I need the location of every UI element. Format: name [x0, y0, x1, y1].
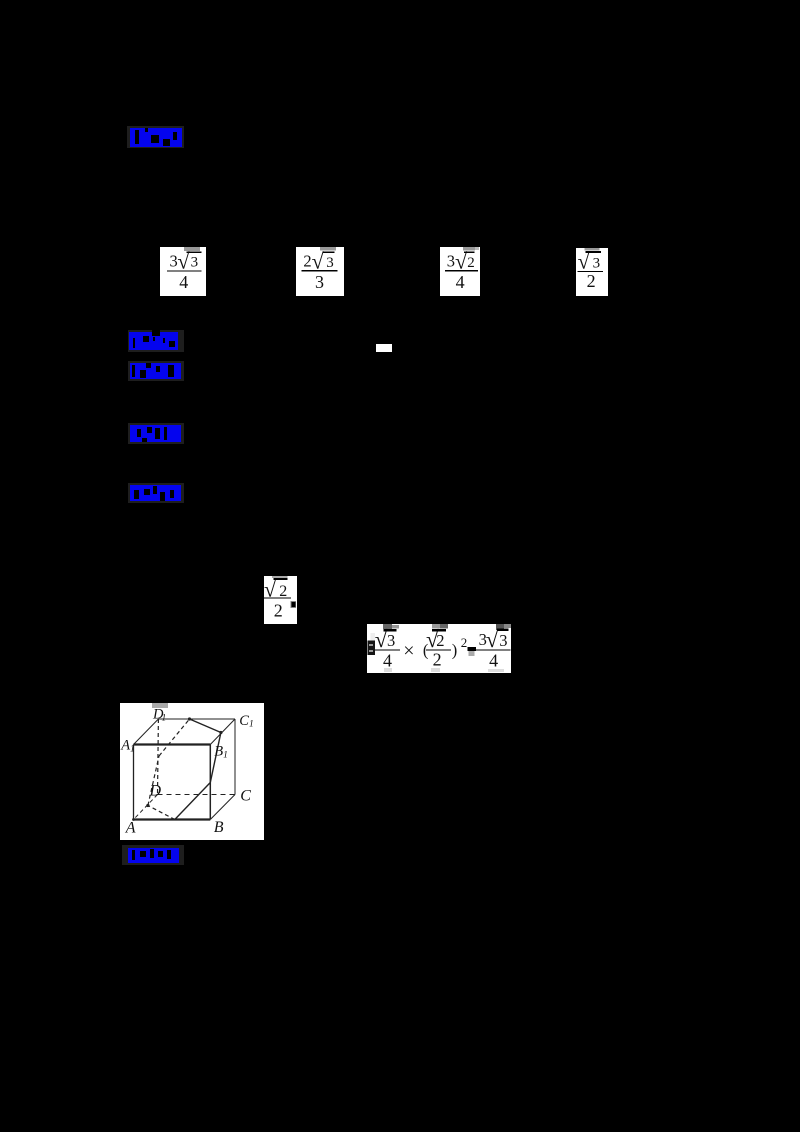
label L4 — [128, 423, 184, 444]
svg-text:): ) — [452, 640, 458, 659]
cube figure — [120, 703, 264, 845]
top gray tabs — [383, 624, 392, 629]
section FH solid — [210, 733, 221, 783]
cube edge DA dashed — [134, 795, 158, 820]
svg-text:4: 4 — [179, 272, 188, 292]
white dash box — [376, 344, 392, 352]
label L1 blue 【题文】 — [127, 126, 184, 148]
cube edge A1A — [133, 745, 135, 820]
formula box B4: √3/2 — [576, 248, 608, 301]
svg-text:2: 2 — [467, 255, 475, 271]
equation box EQ: √3/4 × (√2/2)² = 3√3/4 — [367, 624, 511, 678]
formula box B3: 3√2/4 — [440, 247, 480, 301]
left dark block — [368, 641, 376, 656]
vertex dot P — [146, 804, 149, 807]
svg-text:3: 3 — [499, 631, 507, 650]
svg-text:2: 2 — [461, 635, 468, 650]
section GP dashed — [148, 806, 175, 820]
svg-text:3: 3 — [593, 256, 601, 272]
svg-text:3: 3 — [447, 251, 455, 270]
label L5 — [128, 483, 184, 503]
cube edge D1D dashed — [157, 719, 160, 795]
formula box B2: 2√3/3 — [296, 247, 344, 301]
label L6 — [122, 845, 184, 865]
equals (dark block) — [468, 647, 476, 651]
svg-text:2: 2 — [433, 649, 442, 669]
label L2 — [128, 330, 184, 352]
svg-text:2: 2 — [303, 251, 311, 270]
svg-text:2: 2 — [436, 631, 444, 650]
svg-text:A: A — [125, 820, 136, 837]
gray handle tab — [152, 703, 168, 708]
section QE dashed — [159, 719, 190, 756]
svg-text:3: 3 — [191, 255, 199, 271]
vertex dot A — [132, 818, 135, 821]
cube edge A1D1 — [134, 719, 159, 745]
svg-text:2: 2 — [587, 271, 596, 291]
svg-text:2: 2 — [274, 600, 283, 620]
formula box S: √2/2 — [264, 576, 297, 629]
cube edge CB — [210, 795, 235, 820]
cube edge D1C1 — [158, 718, 235, 720]
svg-text:4: 4 — [383, 651, 392, 671]
section EF solid — [190, 719, 221, 733]
svg-text:×: × — [403, 640, 414, 662]
svg-text:3: 3 — [315, 272, 324, 292]
svg-text:B: B — [214, 819, 224, 836]
vertex dot F — [219, 731, 222, 734]
cube edge A1B1 (front top, bold) — [134, 743, 211, 745]
cube edge B1B — [209, 745, 211, 820]
svg-text:3: 3 — [326, 255, 334, 271]
cube edge C1C — [234, 719, 236, 795]
formula box B1: 3√3/4 — [160, 247, 206, 301]
svg-text:4: 4 — [456, 272, 465, 292]
cube edge C1B1 — [210, 719, 235, 745]
svg-text:2: 2 — [279, 583, 287, 600]
svg-text:D: D — [149, 783, 162, 800]
svg-text:4: 4 — [489, 651, 498, 671]
section HG solid — [175, 783, 211, 820]
vertex dot E — [188, 717, 191, 720]
svg-text:C: C — [240, 788, 251, 805]
cube edge DC dashed — [158, 794, 236, 796]
cube edge AB (front bottom, bold) — [134, 818, 211, 820]
svg-text:√: √ — [486, 627, 499, 652]
bottom light tabs — [384, 668, 392, 672]
label L3 — [128, 361, 184, 381]
section PQ dashed — [148, 756, 159, 806]
svg-text:3: 3 — [387, 631, 395, 650]
